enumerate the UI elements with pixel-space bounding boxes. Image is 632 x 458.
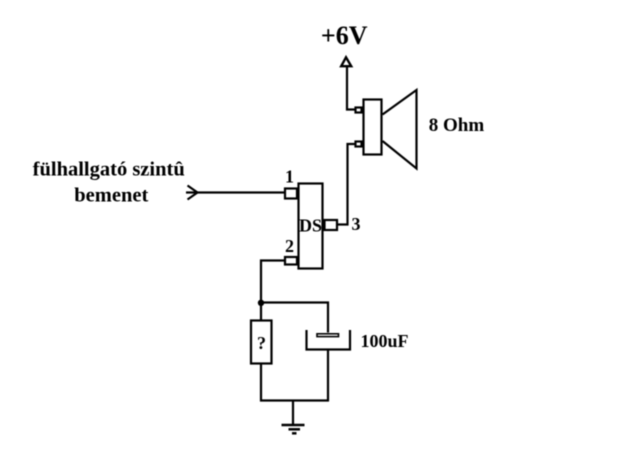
wire bottom rail to ground	[292, 401, 294, 425]
svg-text:?: ?	[257, 333, 266, 353]
wire capacitor bottom to bottom rail	[327, 351, 329, 402]
resistor R? body	[251, 321, 272, 364]
capacitor C1 bottom cup plate	[307, 330, 351, 350]
capacitor C1 top plate	[317, 334, 339, 337]
svg-text:bemenet: bemenet	[74, 184, 148, 206]
speaker LS (8 Ohm)	[356, 90, 417, 169]
wire resistor bottom to bottom rail	[260, 365, 262, 402]
power symbol +6V (up arrow)	[341, 57, 351, 66]
wire +6V to speaker top terminal	[347, 67, 355, 110]
pin 3 terminal	[325, 220, 338, 230]
svg-text:3: 3	[352, 214, 361, 234]
wire node A to capacitor top	[261, 303, 328, 333]
wire speaker bottom terminal to pin 3	[338, 144, 355, 225]
pin 2 terminal	[285, 257, 297, 265]
svg-text:8 Ohm: 8 Ohm	[429, 115, 485, 136]
svg-text:fülhallgató szintû: fülhallgató szintû	[33, 159, 185, 181]
pin 1 terminal	[285, 189, 297, 199]
wire pin 2 down to node A	[261, 261, 285, 320]
svg-text:+6V: +6V	[321, 21, 368, 50]
IC U1 "DS" body	[299, 184, 323, 269]
svg-text:100uF: 100uF	[360, 331, 408, 351]
ground symbol	[282, 425, 305, 433]
wire input to pin 1	[186, 191, 285, 193]
input arrow symbol	[188, 186, 198, 200]
node A junction dot	[258, 300, 264, 306]
bottom rail wire	[260, 399, 329, 401]
svg-text:1: 1	[285, 166, 294, 186]
svg-text:DS: DS	[299, 216, 322, 236]
svg-text:2: 2	[285, 236, 294, 256]
